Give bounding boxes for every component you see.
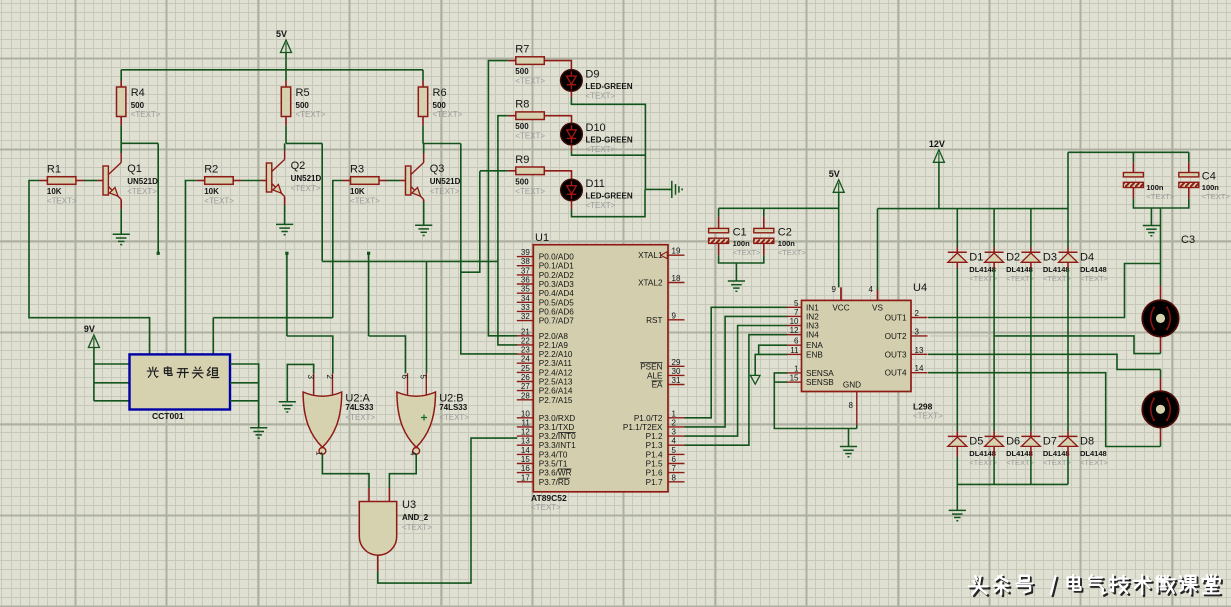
wire R4 top stub [120, 81, 122, 88]
svg-text:9: 9 [832, 285, 837, 294]
wire VS riser [877, 290, 879, 300]
svg-text:IN1: IN1 [806, 303, 819, 312]
svg-text:DL4148: DL4148 [969, 265, 996, 274]
wire top rail [121, 69, 423, 71]
wire D6 bot stub [993, 447, 995, 457]
wire motor1 bot stub [1160, 337, 1162, 352]
wire to U2B pin6 upper [368, 253, 370, 336]
watermark text [969, 575, 1222, 596]
wire R2 to Q2 base [241, 180, 261, 182]
svg-text:DL4148: DL4148 [1043, 265, 1070, 274]
wire R9 right stub [544, 171, 571, 180]
svg-text:5V: 5V [276, 29, 287, 39]
pin 5 (P1.4) U1 [646, 446, 685, 460]
svg-text:P3.3/INT1: P3.3/INT1 [539, 441, 576, 450]
svg-text:23: 23 [521, 346, 530, 355]
svg-text:100n: 100n [733, 239, 751, 248]
wire Q2 collector rail [286, 142, 322, 144]
wire to U2B pin5 [426, 261, 428, 373]
wire cap top rail [1068, 151, 1189, 153]
resistor R6 [418, 87, 462, 119]
wire R8 left stub [508, 115, 516, 117]
svg-text:P3.6/WR: P3.6/WR [539, 469, 572, 478]
wire motor2 top stub [1160, 378, 1162, 391]
svg-text:8: 8 [849, 401, 854, 410]
wire U4 GND down [856, 425, 858, 429]
svg-text:13: 13 [915, 346, 924, 355]
svg-text:D8: D8 [1080, 435, 1094, 447]
svg-text:5: 5 [672, 446, 677, 455]
wire to U2A pin2 jog [287, 336, 333, 373]
pin 10 (IN3) U4 [787, 317, 820, 331]
svg-text:36: 36 [521, 276, 530, 285]
wire VS up [877, 209, 879, 290]
wire motor1 top [1160, 209, 1162, 286]
svg-text:P2.5/A13: P2.5/A13 [539, 378, 573, 387]
wire C3 top red [1132, 162, 1134, 172]
svg-text:U1: U1 [535, 232, 549, 244]
wire ENA [759, 345, 787, 354]
wire R1 left stub [39, 180, 47, 182]
wire C1C2 bottom rail [719, 255, 764, 263]
svg-text:P0.7/AD7: P0.7/AD7 [539, 317, 574, 326]
svg-text:<TEXT>: <TEXT> [204, 197, 234, 206]
ground Q1 emitter [113, 234, 130, 244]
svg-text:<TEXT>: <TEXT> [131, 110, 161, 119]
svg-text:12V: 12V [929, 139, 945, 149]
svg-text:P1.3: P1.3 [646, 441, 663, 450]
wire 9V stem [93, 348, 95, 401]
pin 7 (IN2) U4 [787, 308, 820, 322]
wire Q1 emitter to ground [120, 209, 122, 234]
svg-text:IN4: IN4 [806, 331, 819, 340]
svg-text:<TEXT>: <TEXT> [733, 248, 762, 257]
wire R6 top stub [422, 81, 424, 88]
svg-text:6: 6 [400, 375, 409, 380]
motor M2 [1142, 391, 1178, 427]
svg-text:P2.1/A9: P2.1/A9 [539, 341, 569, 350]
svg-text:2: 2 [915, 309, 920, 318]
svg-text:P2.7/A15: P2.7/A15 [539, 396, 573, 405]
svg-text:2: 2 [325, 375, 334, 380]
wire diode col top x957 [956, 209, 958, 247]
pin 23 (P2.2/A10) U1 [517, 346, 573, 360]
svg-text:500: 500 [515, 122, 529, 131]
wire R4 top [120, 70, 122, 81]
svg-text:5V: 5V [829, 169, 840, 179]
svg-text:10: 10 [521, 409, 530, 418]
svg-text:<TEXT>: <TEXT> [1080, 458, 1109, 467]
svg-text:6: 6 [672, 455, 677, 464]
svg-text:7: 7 [672, 464, 677, 473]
pin 18 (XTAL2) U1 [638, 274, 684, 288]
pin 2 (P1.1/T2EX) U1 [623, 418, 685, 432]
wire D11 cathode [572, 189, 646, 216]
svg-text:GND: GND [843, 381, 861, 390]
wire P1.3 to IN4 [685, 335, 788, 446]
svg-text:R2: R2 [204, 164, 218, 176]
wire Q3 collector rail [423, 143, 461, 145]
svg-text:<TEXT>: <TEXT> [47, 197, 77, 206]
resistor R2 [204, 164, 234, 206]
svg-text:D7: D7 [1043, 435, 1057, 447]
svg-text:P1.4: P1.4 [646, 450, 663, 459]
wire box right row2 [230, 382, 259, 384]
svg-text:OUT1: OUT1 [885, 314, 907, 323]
svg-text:R4: R4 [131, 87, 145, 99]
svg-text:26: 26 [521, 373, 530, 382]
wire D8 bottom drop [1067, 457, 1069, 485]
wire motor1 top stub [1160, 286, 1162, 301]
wire U2B output [389, 454, 416, 488]
wire C1 top stub [718, 217, 720, 229]
pin 12 (IN4) U4 [787, 326, 820, 340]
svg-text:9: 9 [672, 311, 677, 320]
LED D9 [561, 68, 633, 100]
wire R3 right stub [379, 180, 387, 182]
wire R5 bottom stub [285, 117, 287, 126]
pin 4 (VS) U4 [869, 285, 884, 313]
wire R9 left stub [508, 170, 516, 172]
wire motor2 bot [1160, 441, 1162, 447]
wire mid bus [322, 260, 498, 262]
wire R7 left stub [508, 60, 516, 62]
AND gate U3 [359, 499, 432, 555]
wire C2 top [763, 208, 765, 217]
svg-text:P0.3/AD3: P0.3/AD3 [539, 280, 574, 289]
wire Q2 net down [321, 143, 323, 261]
svg-text:11: 11 [790, 346, 799, 355]
svg-text:P2.2/A10: P2.2/A10 [539, 350, 573, 359]
svg-text:100n: 100n [1202, 183, 1220, 192]
resistor R1 [47, 164, 77, 206]
svg-text:4: 4 [869, 285, 874, 294]
pin 37 (P0.2/AD2) U1 [517, 266, 574, 280]
svg-text:12: 12 [521, 428, 530, 437]
svg-text:10K: 10K [350, 187, 365, 196]
wire D8 bot stub [1067, 447, 1069, 457]
pin 3 (P1.2) U1 [646, 428, 685, 442]
wire sensor3 row [213, 317, 332, 319]
svg-text:100n: 100n [1146, 183, 1164, 192]
wire R5 to Q2 collector [285, 125, 287, 143]
wire C3C4 bottom rail [1133, 199, 1188, 208]
transistor Q2 [266, 143, 321, 196]
wire D4 bot stub [1067, 263, 1069, 269]
svg-text:35: 35 [521, 285, 530, 294]
svg-text:500: 500 [131, 101, 145, 110]
diode D8 [1059, 435, 1109, 467]
svg-text:31: 31 [672, 376, 681, 385]
svg-text:6: 6 [794, 337, 799, 346]
svg-text:500: 500 [296, 101, 310, 110]
svg-text:1: 1 [794, 364, 799, 373]
pin 39 (P0.0/AD0) U1 [517, 248, 574, 262]
wire sensor3 down to box [212, 318, 214, 355]
svg-text:P2.0/A8: P2.0/A8 [539, 332, 569, 341]
svg-text:P0.4/AD4: P0.4/AD4 [539, 289, 574, 298]
svg-text:2: 2 [672, 418, 677, 427]
svg-text:D1: D1 [969, 251, 983, 263]
wire U2A output [322, 454, 369, 488]
svg-text:3: 3 [915, 327, 920, 336]
capacitor C2 [754, 226, 807, 257]
wire D bottom drop x1030 [1030, 457, 1032, 485]
svg-text:<TEXT>: <TEXT> [1043, 458, 1072, 467]
wire OUT4 [928, 373, 1161, 447]
svg-text:R1: R1 [47, 164, 61, 176]
svg-text:<TEXT>: <TEXT> [531, 503, 561, 512]
pin 14 (P3.4/T0) U1 [517, 446, 568, 460]
svg-text:L298: L298 [913, 402, 933, 412]
svg-text:4: 4 [672, 437, 677, 446]
svg-text:<TEXT>: <TEXT> [1202, 192, 1231, 201]
svg-text:SENSB: SENSB [806, 378, 834, 387]
pin 5 (IN1) U4 [787, 299, 820, 313]
svg-text:P0.5/AD5: P0.5/AD5 [539, 298, 574, 307]
wire Q3 net down to P2.2 [461, 144, 518, 354]
wire D10 cathode [572, 151, 646, 155]
svg-text:<TEXT>: <TEXT> [515, 132, 545, 141]
pin 1 (P1.0/T2) U1 [634, 409, 685, 423]
svg-text:OUT4: OUT4 [885, 369, 907, 378]
pin 12 (P3.2/INT0) U1 [517, 428, 576, 442]
wire D5 to ground [956, 457, 958, 511]
pin 4 (P1.3) U1 [646, 437, 685, 451]
wire OUT2 [994, 336, 1160, 354]
pin 16 (P3.6/WR) U1 [517, 464, 572, 478]
svg-text:500: 500 [433, 101, 447, 110]
capacitor C1 [709, 226, 762, 257]
svg-text:P3.7/RD: P3.7/RD [539, 478, 570, 487]
svg-text:25: 25 [521, 364, 530, 373]
pin 15 (P3.5/T1) U1 [517, 455, 568, 469]
wire C1 bot stub [718, 244, 720, 256]
wire P1.2 to IN3 [685, 326, 788, 437]
pin 24 (P2.3/A11) U1 [517, 355, 573, 369]
svg-text:C4: C4 [1202, 171, 1216, 183]
wire D3 bot stub [1030, 263, 1032, 269]
pin 13 (P3.3/INT1) U1 [517, 437, 576, 451]
svg-text:IN3: IN3 [806, 322, 819, 331]
svg-text:Q2: Q2 [291, 160, 306, 172]
pin 3 (OUT2) U4 [885, 327, 928, 341]
svg-text:R3: R3 [350, 164, 364, 176]
wire 12V stem [938, 162, 940, 208]
wire R3 to node [333, 181, 343, 318]
svg-text:<TEXT>: <TEXT> [291, 184, 321, 193]
svg-text:<TEXT>: <TEXT> [402, 523, 432, 532]
svg-text:P2.4/A12: P2.4/A12 [539, 368, 573, 377]
svg-text:OUT2: OUT2 [885, 332, 907, 341]
svg-text:R9: R9 [515, 154, 529, 166]
pin 33 (P0.6/AD6) U1 [517, 303, 574, 317]
wire R9 to jog [480, 170, 508, 172]
ground U4 [840, 447, 857, 457]
pin 13 (OUT3) U4 [885, 346, 928, 360]
wire D4 top stub [1067, 247, 1069, 252]
svg-text:<TEXT>: <TEXT> [350, 197, 380, 206]
wire D4 col top [1067, 152, 1069, 247]
wire Q3 base stub [400, 180, 405, 182]
wire box left 2 [94, 382, 130, 384]
svg-text:ALE: ALE [647, 371, 663, 380]
ground Q2 emitter [276, 224, 293, 234]
wire C4 top stub [1188, 152, 1190, 162]
wire SENSB [774, 381, 787, 383]
ground Q3 emitter [415, 225, 432, 235]
svg-text:<TEXT>: <TEXT> [1080, 274, 1109, 283]
svg-text:PSEN: PSEN [640, 362, 662, 371]
wire D6 col [993, 269, 995, 432]
svg-text:ENA: ENA [806, 341, 823, 350]
node Q1 net end [157, 252, 160, 255]
pin 9 (RST) U1 [646, 311, 684, 325]
wire D5 top stub [956, 431, 958, 436]
pin 38 (P0.1/AD1) U1 [517, 257, 574, 271]
wire D7 top stub [1030, 431, 1032, 436]
svg-text:EA: EA [652, 381, 663, 390]
wire C3 top stub [1132, 152, 1134, 162]
clock mark XTAL1 [661, 252, 668, 259]
wire Q3 emitter to ground [423, 202, 425, 225]
ground C3 C4 [1143, 226, 1160, 236]
svg-text:C3: C3 [1181, 234, 1195, 246]
svg-text:30: 30 [672, 367, 681, 376]
wire D bottom rail [957, 483, 1068, 485]
node U2B-6 net end [367, 252, 370, 255]
svg-text:<TEXT>: <TEXT> [296, 110, 326, 119]
svg-text:P1.1/T2EX: P1.1/T2EX [623, 423, 663, 432]
svg-text:<TEXT>: <TEXT> [778, 248, 807, 257]
svg-text:3: 3 [672, 428, 677, 437]
power 5V U4 [829, 169, 845, 193]
wire R6 to Q3 collector [422, 125, 424, 143]
wire motor1 bot [1160, 352, 1162, 354]
wire U3 in2 stub [388, 488, 390, 502]
svg-text:P3.5/T1: P3.5/T1 [539, 460, 568, 469]
svg-text:29: 29 [672, 358, 681, 367]
wire C2 bot stub [763, 244, 765, 256]
svg-text:11: 11 [521, 418, 530, 427]
svg-text:SENSA: SENSA [806, 369, 834, 378]
svg-text:C1: C1 [733, 226, 747, 238]
resistor R9 [515, 154, 545, 196]
svg-text:P2.3/A11: P2.3/A11 [539, 359, 573, 368]
motor M1 [1142, 300, 1178, 336]
wire R3 to Q3 base [387, 180, 400, 182]
wire C1 top [718, 208, 720, 217]
wire Q1 emitter stub [120, 200, 122, 210]
svg-text:<TEXT>: <TEXT> [585, 91, 615, 100]
transistor Q3 [406, 144, 461, 200]
svg-text:15: 15 [790, 374, 799, 383]
wire R8 to P2.1 [498, 116, 517, 345]
svg-text:16: 16 [521, 464, 530, 473]
svg-text:<TEXT>: <TEXT> [1043, 274, 1072, 283]
pin 27 (P2.6/A14) U1 [517, 382, 573, 396]
svg-text:VS: VS [872, 304, 883, 313]
wire D6 top stub [993, 431, 995, 436]
wire Q2 emitter stub [284, 197, 286, 206]
pin 35 (P0.4/AD4) U1 [517, 285, 574, 299]
wire box left 1 [94, 363, 130, 365]
resistor R5 [281, 87, 325, 119]
svg-text:1: 1 [672, 409, 677, 418]
pin 2 (OUT1) U4 [885, 309, 928, 323]
wire R1 right stub [76, 180, 84, 182]
svg-text:P1.2: P1.2 [646, 432, 663, 441]
wire to U2B pin6 jog [369, 336, 406, 373]
wire R2 left stub [197, 180, 205, 182]
wire D1 bot stub [956, 263, 958, 269]
pin 8 (P1.7) U1 [646, 473, 685, 487]
svg-text:LED-GREEN: LED-GREEN [586, 192, 633, 201]
pin 10 (P3.0/RXD) U1 [517, 409, 575, 423]
wire R5 top stub [285, 81, 287, 88]
resistor R7 [515, 44, 545, 86]
svg-text:<TEXT>: <TEXT> [586, 145, 616, 154]
microcontroller U1 AT89C52 body [531, 232, 668, 512]
wire R3 left stub [343, 180, 351, 182]
pin 34 (P0.5/AD5) U1 [517, 294, 574, 308]
wire Q2 emitter to ground [284, 205, 286, 224]
svg-text:DL4148: DL4148 [1043, 449, 1070, 458]
wire D3 top stub [1030, 247, 1032, 252]
diode D6 [985, 435, 1035, 467]
wire motor2 bot stub [1160, 428, 1162, 442]
svg-text:P1.5: P1.5 [646, 460, 663, 469]
svg-text:P1.7: P1.7 [646, 478, 663, 487]
wire Q2 base stub [261, 180, 266, 182]
svg-text:15: 15 [521, 455, 530, 464]
svg-text:P0.1/AD1: P0.1/AD1 [539, 262, 574, 271]
node U2A-2 net end [285, 252, 288, 255]
svg-text:ENB: ENB [806, 350, 823, 359]
ground diodes [949, 510, 966, 520]
NOR gate U2:B [397, 373, 469, 456]
wire D10 cathode stub [571, 145, 573, 151]
svg-text:Q3: Q3 [430, 163, 445, 175]
pin 6 (P1.5) U1 [646, 455, 685, 469]
svg-text:P0.0/AD0: P0.0/AD0 [539, 253, 574, 262]
svg-text:U4: U4 [913, 282, 927, 294]
wire R6 top [422, 70, 424, 81]
wire D5 col [956, 269, 958, 432]
transistor Q1 [103, 143, 158, 199]
pin 11 (P3.1/TXD) U1 [517, 418, 575, 432]
wire ENB [755, 354, 787, 372]
svg-text:D9: D9 [585, 68, 599, 80]
wire box right row3 [230, 400, 259, 402]
wire D bottom drop x994 [993, 457, 995, 485]
ground LED net [672, 181, 682, 198]
wire C4 bot red [1188, 188, 1190, 199]
wire D7 bot stub [1030, 447, 1032, 457]
pin 7 (P1.6) U1 [646, 464, 685, 478]
svg-text:3: 3 [306, 375, 315, 380]
wire Q1 base stub [98, 180, 103, 182]
pin 32 (P0.7/AD7) U1 [517, 312, 574, 326]
svg-text:74LS33: 74LS33 [345, 403, 374, 412]
LED D11 [561, 178, 633, 210]
wire diode col top x1030 [1030, 209, 1032, 247]
svg-text:OUT3: OUT3 [885, 350, 907, 359]
svg-text:10: 10 [790, 317, 799, 326]
svg-text:5: 5 [419, 375, 428, 380]
power 5V rail top [276, 29, 292, 53]
svg-text:P0.6/AD6: P0.6/AD6 [539, 307, 574, 316]
